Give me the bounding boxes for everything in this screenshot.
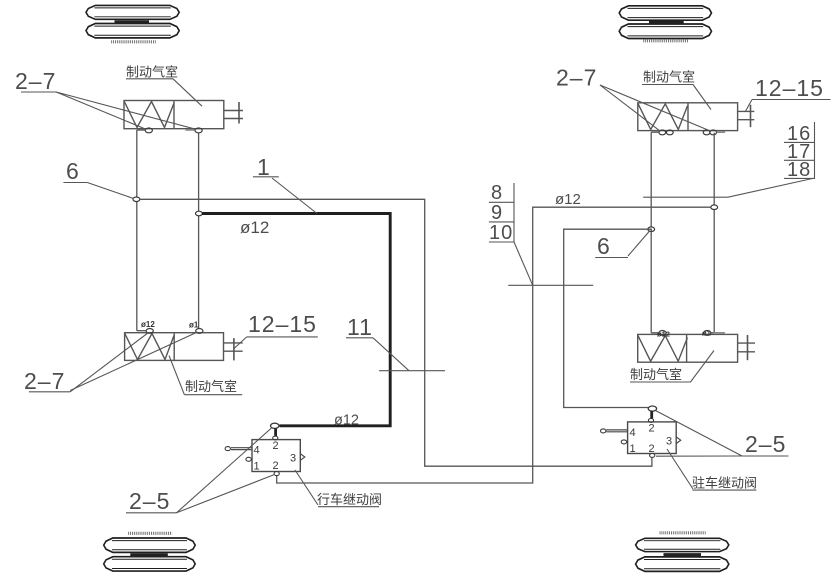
leader to parking relay valve — [667, 449, 693, 489]
tick mark on x=532.7 pipe — [508, 284, 593, 286]
port circle (rear-right chamber, port 2) — [704, 331, 711, 336]
vertical bar right of 16/17/18 — [814, 122, 816, 178]
svg-text:12–15: 12–15 — [755, 75, 824, 101]
tire (rear-left wheel) — [104, 533, 196, 571]
svg-text:ø1: ø1 — [189, 321, 199, 330]
service relay valve bottom port circle — [274, 472, 279, 476]
port circle (rear-left chamber, port 2) — [196, 329, 203, 334]
push rod (front-right chamber) — [738, 105, 755, 128]
push rod (front-left chamber) — [224, 102, 243, 124]
brake chamber (front-right) — [638, 103, 738, 131]
port circle (front-left chamber, port 1) — [145, 128, 152, 133]
tire (front-left wheel) — [86, 5, 179, 41]
service relay valve top stem (bold) — [274, 428, 277, 436]
leaders 2-5 to service relay valve ports — [177, 428, 273, 513]
push rod (rear-left chamber) — [224, 338, 243, 360]
node on left circuit right pipe (phi12 tee) — [196, 211, 203, 216]
port circle (rear-right chamber, port 1) — [659, 331, 666, 336]
svg-text:3: 3 — [666, 436, 672, 448]
tire (rear-right wheel) — [636, 533, 729, 572]
svg-text:2–5: 2–5 — [745, 431, 786, 457]
vertical bar right of 8/9/10 — [513, 183, 515, 242]
leader to service relay valve — [295, 470, 318, 505]
push rod (rear-right chamber) — [738, 335, 755, 360]
svg-text:2–7: 2–7 — [15, 68, 56, 94]
wire: front-right chamber port stub — [651, 131, 659, 133]
leader 1 to phi12 pipe — [272, 178, 317, 214]
svg-text:4: 4 — [254, 445, 260, 457]
svg-text:制动气室: 制动气室 — [185, 379, 237, 394]
node on thick line above service relay valve — [271, 423, 279, 428]
parking relay valve bottom port circle — [650, 453, 655, 457]
svg-text:ø1: ø1 — [702, 329, 711, 338]
svg-text:ø12: ø12 — [240, 218, 269, 237]
svg-text:ø12: ø12 — [555, 191, 581, 208]
leader 11 to thick pipe — [373, 338, 409, 371]
tire (front-right wheel) — [619, 6, 711, 41]
wire: pipe B from node 6 right to parking valve top port — [564, 229, 652, 407]
leader 6 to node — [87, 183, 133, 199]
svg-text:12–15: 12–15 — [248, 311, 317, 337]
svg-text:制动气室: 制动气室 — [126, 65, 178, 80]
svg-text:2–7: 2–7 — [24, 368, 65, 394]
leader 6 to right node — [628, 231, 650, 256]
wire: thick service line phi12 (node -> right -> down -> left to relay valve) — [202, 214, 390, 426]
parking relay valve top small circle — [648, 419, 653, 423]
svg-text:18: 18 — [787, 159, 811, 181]
port circles (front-right chamber, port 2 pair) — [703, 130, 710, 135]
leader 2-7 to front-left ports — [56, 92, 146, 130]
svg-text:11: 11 — [347, 314, 373, 340]
port dash (front-left chamber) — [185, 129, 194, 131]
leader to front-right chamber — [693, 85, 711, 110]
service relay valve top small circle — [273, 436, 278, 440]
leader 8/9/10 to pipe tick — [514, 242, 533, 285]
wire: front-left chamber port stub — [137, 129, 145, 131]
parking relay valve port 3 arrow — [676, 437, 680, 443]
svg-text:8: 8 — [491, 182, 503, 204]
svg-text:ø12: ø12 — [657, 330, 670, 339]
port circle (front-left chamber, port 2) — [195, 128, 202, 133]
svg-text:2–5: 2–5 — [129, 488, 170, 514]
port circle (rear-left chamber, port 1) — [146, 329, 153, 334]
service relay valve U1 body — [252, 440, 300, 472]
svg-text:制动气室: 制动气室 — [630, 367, 682, 382]
service relay valve port 3 arrow — [301, 454, 305, 460]
leaders 2-5 to parking valve ports — [656, 411, 743, 457]
wire: rear-left chamber port stub — [137, 330, 146, 332]
svg-text:6: 6 — [66, 158, 80, 184]
wire: right pipe of right chambers (x=714.2) — [713, 133, 715, 333]
leaders 2-7 to front-right ports — [600, 85, 660, 131]
port dash (front-right chamber) — [717, 131, 726, 133]
tick mark on right pipes — [643, 196, 728, 198]
svg-text:9: 9 — [491, 202, 503, 224]
svg-text:4: 4 — [630, 427, 636, 439]
leader 12-15 to front-right push rod — [745, 100, 752, 112]
service relay valve port 4 stub — [231, 447, 252, 449]
wire: rear-right chamber port stubs — [651, 332, 659, 334]
brake chamber (rear-right) — [638, 334, 738, 362]
svg-text:2: 2 — [273, 440, 279, 452]
svg-text:ø12: ø12 — [141, 320, 155, 329]
brake chamber (rear-left) — [125, 333, 224, 361]
node 6 (left circuit) — [133, 197, 140, 202]
node on right circuit right pipe — [711, 205, 718, 210]
svg-text:1: 1 — [257, 154, 271, 180]
wire: line from node 6 to parking relay valve bottom (via x=424.7) — [140, 199, 652, 466]
svg-text:2: 2 — [649, 443, 655, 455]
leader to rear-right chamber — [691, 351, 715, 383]
leader 16/17/18 to right pipe tick — [728, 178, 813, 197]
svg-text:2: 2 — [649, 423, 655, 435]
parking relay valve top node circle — [648, 406, 656, 411]
brake chamber (front-left) — [124, 101, 224, 129]
wire: right pipe of left chambers (x=198.6) — [198, 133, 200, 329]
svg-text:2–7: 2–7 — [556, 65, 597, 91]
wire: service relay valve bottom port to right circuit (via x=532.7) — [277, 207, 711, 483]
tick mark on thick pipe (label 11) — [379, 370, 445, 372]
svg-text:行车继动阀: 行车继动阀 — [317, 492, 382, 507]
svg-text:1: 1 — [630, 443, 636, 455]
svg-text:3: 3 — [290, 453, 296, 465]
parking relay valve port 4 stub — [606, 429, 627, 431]
port circles (front-right chamber, port 1 pair) — [659, 130, 666, 135]
svg-text:制动气室: 制动气室 — [643, 70, 695, 85]
svg-text:6: 6 — [597, 233, 611, 259]
leaders 2-7 to rear-left ports — [70, 333, 148, 392]
wire: left pipe of left chambers (x=136.8) — [136, 130, 138, 331]
leader to front-left chamber — [173, 79, 202, 106]
leader 12-15 to rear-left push rod — [234, 337, 246, 348]
leader to rear-left chamber — [169, 356, 184, 395]
service relay valve port 1 circle — [246, 457, 251, 461]
parking relay valve top stem (bold) — [650, 411, 653, 419]
parking relay valve port 1 circle — [621, 440, 626, 444]
parking relay valve U2 body — [628, 422, 677, 454]
svg-text:ø12: ø12 — [334, 413, 359, 429]
svg-text:10: 10 — [489, 222, 513, 244]
port dash (rear-right chamber) — [714, 332, 725, 334]
svg-text:1: 1 — [254, 461, 260, 473]
wire: left pipe of right chambers (x=651.2) — [650, 132, 652, 333]
svg-text:驻车继动阀: 驻车继动阀 — [692, 476, 757, 491]
svg-text:2: 2 — [273, 460, 279, 472]
node 6 (right circuit) — [648, 227, 655, 232]
